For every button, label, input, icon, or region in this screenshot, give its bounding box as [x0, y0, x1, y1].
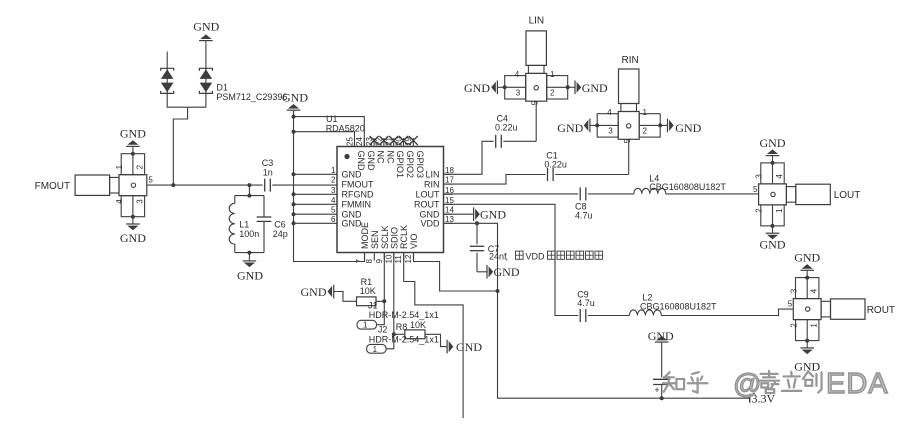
svg-text:GND: GND: [342, 170, 363, 180]
svg-text:4: 4: [810, 288, 819, 293]
svg-text:2: 2: [550, 89, 555, 98]
svg-text:1: 1: [775, 208, 784, 213]
svg-text:J2: J2: [378, 325, 388, 335]
svg-text:24p: 24p: [273, 229, 288, 239]
svg-text:R8: R8: [396, 322, 408, 332]
svg-text:RIN: RIN: [622, 55, 639, 66]
svg-text:SDIO: SDIO: [389, 227, 399, 249]
svg-text:J1: J1: [368, 301, 378, 311]
svg-text:2: 2: [643, 127, 648, 136]
svg-text:NC: NC: [385, 151, 395, 164]
svg-text:CBG160808U182T: CBG160808U182T: [649, 182, 726, 192]
svg-text:1: 1: [810, 323, 819, 328]
svg-text:GND: GND: [760, 136, 786, 150]
svg-text:GPIO2: GPIO2: [405, 151, 415, 179]
svg-text:MODE: MODE: [360, 222, 370, 249]
svg-text:2: 2: [135, 164, 144, 169]
svg-text:5: 5: [148, 176, 153, 185]
svg-text:1: 1: [331, 166, 336, 175]
svg-text:GND: GND: [760, 237, 786, 251]
svg-text:LIN: LIN: [425, 170, 439, 180]
svg-text:18: 18: [445, 166, 454, 175]
svg-text:1: 1: [643, 108, 648, 117]
svg-text:9: 9: [375, 259, 384, 264]
svg-text:2: 2: [331, 176, 336, 185]
svg-text:24nf: 24nf: [489, 252, 507, 262]
svg-text:EDA: EDA: [826, 368, 889, 400]
svg-text:4.7u: 4.7u: [575, 211, 593, 221]
svg-text:10K: 10K: [360, 286, 376, 296]
svg-text:0.22u: 0.22u: [495, 123, 518, 133]
svg-text:GND: GND: [193, 20, 219, 34]
svg-text:,: ,: [506, 252, 509, 262]
svg-text:GND: GND: [582, 81, 608, 95]
svg-text:4: 4: [775, 174, 784, 179]
svg-text:L1: L1: [239, 220, 249, 230]
svg-text:5: 5: [623, 138, 632, 143]
svg-text:12: 12: [404, 254, 413, 263]
svg-text:+: +: [654, 385, 659, 395]
svg-text:4: 4: [331, 196, 336, 205]
svg-text:3: 3: [135, 199, 144, 204]
svg-text:FMOUT: FMOUT: [342, 179, 374, 189]
svg-text:GND: GND: [120, 127, 146, 141]
svg-text:GPIO3: GPIO3: [415, 151, 425, 179]
svg-text:4.7u: 4.7u: [577, 298, 595, 308]
svg-text:3: 3: [608, 127, 613, 136]
svg-text:5: 5: [331, 206, 336, 215]
svg-text:1: 1: [373, 345, 378, 354]
svg-text:3: 3: [789, 288, 798, 293]
svg-text:RIN: RIN: [424, 179, 440, 189]
svg-text:D1: D1: [216, 83, 228, 93]
svg-text:LIN: LIN: [529, 16, 545, 27]
svg-text:GND: GND: [494, 265, 520, 279]
svg-text:25: 25: [345, 137, 354, 146]
svg-text:24: 24: [355, 137, 364, 146]
svg-text:VDD: VDD: [420, 219, 440, 229]
svg-text:GND: GND: [301, 285, 327, 299]
svg-text:1: 1: [550, 70, 555, 79]
svg-text:10K: 10K: [410, 320, 426, 330]
svg-text:5: 5: [788, 300, 793, 309]
svg-text:3: 3: [331, 186, 336, 195]
svg-text:2: 2: [755, 208, 764, 213]
svg-text:GND: GND: [557, 121, 583, 135]
svg-text:GND: GND: [356, 151, 366, 172]
svg-text:5: 5: [531, 100, 540, 105]
svg-text:GND: GND: [342, 219, 363, 229]
svg-text:1n: 1n: [263, 168, 273, 178]
svg-text:6: 6: [331, 215, 336, 224]
svg-text:11: 11: [394, 255, 403, 264]
svg-text:@: @: [733, 368, 761, 399]
svg-text:PSM712_C29396: PSM712_C29396: [216, 92, 287, 102]
svg-text:15: 15: [445, 196, 454, 205]
svg-text:GND: GND: [366, 151, 376, 172]
svg-text:HDR-M-2.54_1x1: HDR-M-2.54_1x1: [369, 310, 439, 320]
svg-text:GND: GND: [480, 208, 506, 222]
svg-text:FMMIN: FMMIN: [342, 200, 372, 210]
svg-text:10: 10: [384, 254, 393, 263]
svg-text:RCLK: RCLK: [399, 225, 409, 249]
svg-text:5: 5: [753, 185, 758, 194]
svg-text:3: 3: [755, 174, 764, 179]
svg-text:14: 14: [445, 206, 454, 215]
svg-text:ROUT: ROUT: [867, 305, 895, 316]
svg-text:RFGND: RFGND: [342, 190, 374, 200]
svg-text:NC: NC: [376, 151, 386, 164]
svg-text:1: 1: [363, 321, 368, 330]
svg-text:LOUT: LOUT: [415, 190, 440, 200]
svg-text:GND: GND: [120, 231, 146, 245]
svg-text:0.22u: 0.22u: [544, 160, 567, 170]
svg-text:LOUT: LOUT: [834, 190, 861, 201]
svg-text:GND: GND: [237, 269, 263, 283]
svg-text:4: 4: [607, 108, 612, 117]
svg-text:GND: GND: [464, 81, 490, 95]
svg-text:3: 3: [516, 89, 521, 98]
svg-text:100n: 100n: [239, 229, 259, 239]
svg-text:C6: C6: [274, 220, 286, 230]
svg-text:13: 13: [445, 215, 454, 224]
svg-text:GND: GND: [675, 121, 701, 135]
svg-text:FMOUT: FMOUT: [35, 181, 71, 192]
svg-text:8: 8: [365, 259, 374, 264]
svg-text:GND: GND: [648, 329, 674, 343]
svg-text:GND: GND: [794, 251, 820, 265]
svg-text:2: 2: [789, 323, 798, 328]
svg-text:4: 4: [115, 199, 124, 204]
svg-text:C3: C3: [262, 158, 274, 168]
svg-text:4: 4: [515, 70, 520, 79]
svg-text:VIO: VIO: [409, 233, 419, 249]
svg-text:SEN: SEN: [370, 230, 380, 249]
svg-text:GND: GND: [456, 340, 482, 354]
svg-text:CBG160808U182T: CBG160808U182T: [640, 302, 717, 312]
svg-text:GPIO1: GPIO1: [395, 151, 405, 179]
svg-text:1: 1: [115, 164, 124, 169]
svg-text:ROUT: ROUT: [414, 200, 440, 210]
svg-text:17: 17: [445, 176, 454, 185]
svg-text:U1: U1: [326, 114, 338, 124]
svg-text:HDR-M-2.54_1x1: HDR-M-2.54_1x1: [369, 335, 439, 345]
svg-text:SCLK: SCLK: [380, 225, 390, 249]
svg-text:VDD: VDD: [526, 252, 546, 262]
